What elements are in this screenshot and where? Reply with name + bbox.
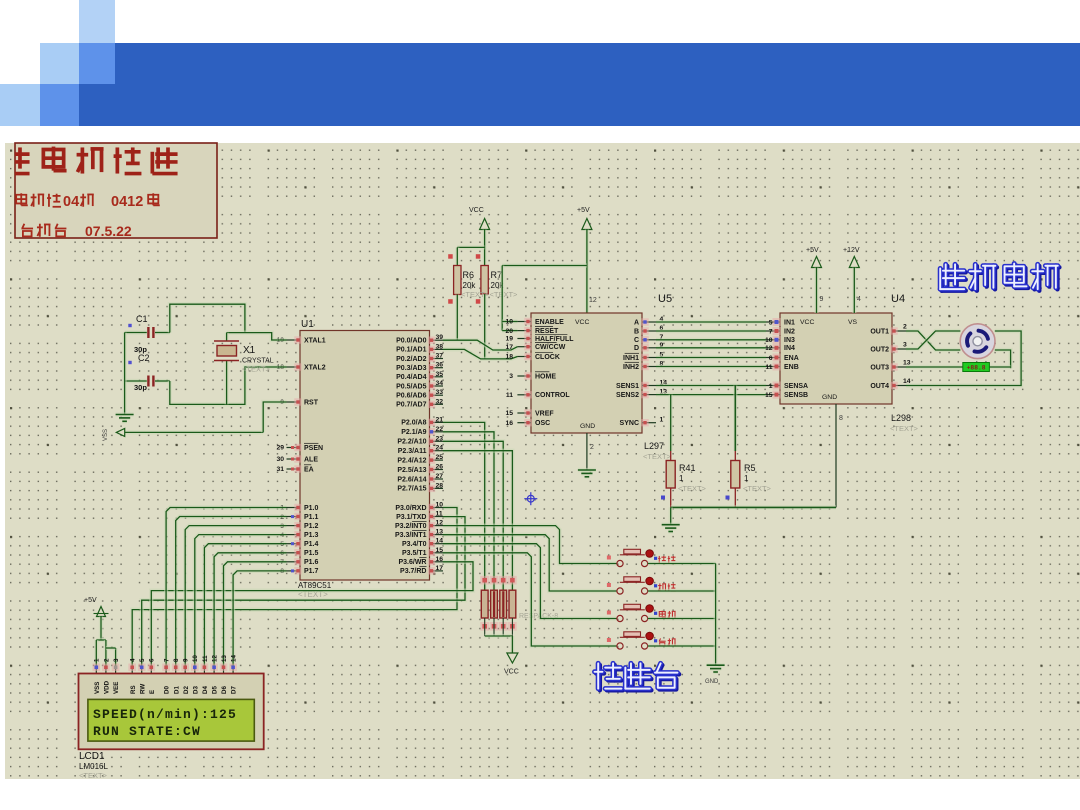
svg-text:HALF/FULL: HALF/FULL [535,336,574,343]
svg-text:10: 10 [436,502,444,509]
svg-text:SENS1: SENS1 [616,383,639,390]
svg-text:OUT1: OUT1 [870,328,889,335]
svg-text:P1.3: P1.3 [304,532,319,539]
svg-text:U1: U1 [301,319,314,330]
svg-text:23: 23 [436,435,444,442]
svg-text:RUN STATE:CW: RUN STATE:CW [93,724,201,739]
svg-text:P2.0/A8: P2.0/A8 [401,420,426,427]
svg-text:SENSA: SENSA [784,383,808,390]
svg-text:VCC: VCC [575,319,589,326]
svg-text:26: 26 [436,464,444,471]
svg-text:19: 19 [505,336,513,343]
svg-text:P1.0: P1.0 [304,505,319,512]
svg-text:IN4: IN4 [784,345,795,352]
svg-text:4: 4 [857,296,861,303]
svg-text:P3.1/TXD: P3.1/TXD [396,514,426,521]
svg-text:SENSB: SENSB [784,392,808,399]
svg-text:+5V: +5V [806,247,819,254]
svg-text:ALE: ALE [304,456,318,463]
svg-text:P1.4: P1.4 [304,541,319,548]
svg-text:0412: 0412 [111,194,143,210]
svg-text:37: 37 [436,353,444,360]
svg-text:D6: D6 [221,686,228,694]
svg-text:1: 1 [769,383,773,390]
svg-text:ENA: ENA [784,355,799,362]
svg-text:16: 16 [505,420,513,427]
svg-text:11: 11 [506,392,513,399]
svg-text:P0.7/AD7: P0.7/AD7 [396,402,426,409]
svg-text:SYNC: SYNC [620,420,639,427]
svg-text:D0: D0 [164,686,171,694]
svg-text:RW: RW [139,684,146,694]
svg-text:P2.6/A14: P2.6/A14 [397,476,426,483]
svg-text:RESET: RESET [535,328,559,335]
svg-text:20: 20 [505,328,513,335]
svg-text:P0.2/AD2: P0.2/AD2 [396,356,426,363]
svg-text:13: 13 [221,655,228,662]
svg-text:P0.6/AD6: P0.6/AD6 [396,393,426,400]
svg-text:P0.0/AD0: P0.0/AD0 [396,338,426,345]
svg-text:VSS: VSS [94,682,101,694]
svg-text:RS: RS [130,685,137,694]
svg-text:35: 35 [436,371,444,378]
svg-text:LM016L: LM016L [79,762,108,771]
svg-text:P2.5/A13: P2.5/A13 [397,467,426,474]
svg-text:D5: D5 [212,686,219,694]
svg-text:<TEXT>: <TEXT> [890,424,919,433]
svg-text:SENS2: SENS2 [616,392,639,399]
svg-text:IN3: IN3 [784,337,795,344]
svg-text:VCC: VCC [800,319,814,326]
svg-text:R41: R41 [679,463,696,473]
svg-text:U5: U5 [658,293,672,305]
svg-text:VEE: VEE [113,682,120,694]
svg-text:+12V: +12V [843,247,860,254]
svg-text:HOME: HOME [535,373,556,380]
svg-text:CW/CCW: CW/CCW [535,344,566,351]
svg-text:IN2: IN2 [784,328,795,335]
svg-text:P1.1: P1.1 [304,514,319,521]
svg-text:P3.5/T1: P3.5/T1 [402,550,427,557]
svg-text:13: 13 [436,529,444,536]
svg-text:P2.1/A9: P2.1/A9 [401,429,426,436]
svg-text:VREF: VREF [535,410,554,417]
svg-text:RST: RST [304,399,319,406]
svg-text:8: 8 [173,658,180,662]
svg-text:10: 10 [192,655,199,662]
svg-text:P2.4/A12: P2.4/A12 [397,457,426,464]
svg-text:P2.7/A15: P2.7/A15 [397,486,426,493]
svg-text:C2: C2 [138,353,150,363]
svg-text:36: 36 [436,362,444,369]
svg-text:VCC: VCC [504,669,519,676]
svg-text:VSS: VSS [103,429,109,441]
svg-text:10: 10 [505,319,513,326]
svg-text:3: 3 [509,373,513,380]
svg-text:VCC: VCC [469,207,484,214]
svg-text:P0.4/AD4: P0.4/AD4 [396,374,426,381]
svg-text:R5: R5 [744,463,756,473]
svg-text:ENB: ENB [784,364,799,371]
svg-text:GND: GND [705,679,719,685]
svg-text:20k: 20k [463,281,477,290]
svg-text:7: 7 [164,658,171,662]
svg-text:INH1: INH1 [623,355,639,362]
svg-text:28: 28 [436,482,444,489]
svg-text:33: 33 [436,389,444,396]
svg-text:+5V: +5V [84,597,97,604]
svg-text:XTAL2: XTAL2 [304,364,326,371]
svg-text:D1: D1 [173,686,180,694]
svg-text:E: E [149,690,156,694]
svg-text:<TEXT>: <TEXT> [678,484,707,493]
svg-text:3: 3 [113,658,120,662]
svg-text:14: 14 [231,655,238,662]
svg-text:P3.6/WR: P3.6/WR [398,559,426,566]
svg-text:GND: GND [580,423,595,430]
svg-text:CRYSTAL: CRYSTAL [242,358,274,365]
svg-text:P1.5: P1.5 [304,550,319,557]
svg-text:15: 15 [436,547,444,554]
svg-text:OUT3: OUT3 [870,364,889,371]
svg-text:ENABLE: ENABLE [535,319,564,326]
svg-text:22: 22 [436,426,444,433]
svg-text:L298: L298 [891,413,911,423]
svg-text:1: 1 [94,658,101,662]
svg-text:34: 34 [436,380,444,387]
svg-text:17: 17 [436,565,444,572]
svg-text:P3.7/RD: P3.7/RD [400,568,426,575]
svg-text:XTAL1: XTAL1 [304,337,326,344]
svg-text:04: 04 [63,194,79,210]
svg-text:31: 31 [276,466,284,473]
svg-text:30: 30 [276,456,284,463]
svg-text:9: 9 [820,296,824,303]
svg-text:D4: D4 [202,686,209,694]
svg-text:12: 12 [765,345,773,352]
svg-text:39: 39 [436,334,444,341]
svg-text:11: 11 [765,364,772,371]
svg-text:CONTROL: CONTROL [535,392,570,399]
svg-text:+5V: +5V [577,207,590,214]
svg-text:1: 1 [679,474,684,483]
svg-text:32: 32 [436,398,444,405]
svg-text:8: 8 [839,415,843,422]
svg-text:1: 1 [744,474,749,483]
svg-text:25: 25 [436,454,444,461]
svg-text:P0.5/AD5: P0.5/AD5 [396,383,426,390]
svg-text:GND: GND [822,394,837,401]
svg-text:27: 27 [436,473,444,480]
svg-text:A: A [634,319,639,326]
svg-text:12: 12 [436,520,444,527]
svg-text:LCD1: LCD1 [79,751,105,762]
svg-text:D2: D2 [183,686,190,694]
svg-text:OSC: OSC [535,420,550,427]
svg-text:29: 29 [276,445,284,452]
svg-text:11: 11 [202,655,209,662]
svg-text:VDD: VDD [104,680,111,694]
svg-text:U4: U4 [891,293,905,305]
svg-text:21: 21 [436,416,444,423]
svg-text:C1: C1 [136,314,148,324]
svg-text:CLOCK: CLOCK [535,354,560,361]
svg-text:D: D [634,345,639,352]
svg-text:R6: R6 [463,270,475,280]
svg-text:07.5.22: 07.5.22 [85,223,132,239]
svg-text:D3: D3 [192,686,199,694]
svg-text:EA: EA [304,466,314,473]
svg-text:B: B [634,328,639,335]
svg-text:P3.3/INT1: P3.3/INT1 [395,532,427,539]
svg-text:P0.1/AD1: P0.1/AD1 [396,347,426,354]
svg-text:L297: L297 [644,441,664,451]
svg-text:7: 7 [769,328,773,335]
svg-text:P3.0/RXD: P3.0/RXD [395,505,426,512]
svg-text:<TEXT>: <TEXT> [643,452,672,461]
svg-text:6: 6 [149,658,156,662]
svg-text:5: 5 [139,658,146,662]
svg-text:15: 15 [505,410,513,417]
svg-text:14: 14 [436,538,444,545]
svg-text:10: 10 [765,337,773,344]
svg-text:X1: X1 [243,345,256,356]
svg-text:4: 4 [130,658,137,662]
svg-text:5: 5 [769,319,773,326]
svg-text:16: 16 [436,556,444,563]
svg-text:2: 2 [103,658,110,662]
svg-text:P3.2/INT0: P3.2/INT0 [395,523,427,530]
svg-text:P2.3/A11: P2.3/A11 [398,448,427,455]
svg-text:P1.7: P1.7 [304,568,319,575]
svg-text:P1.6: P1.6 [304,559,319,566]
svg-text:2: 2 [590,444,594,451]
svg-text:15: 15 [765,392,773,399]
svg-text:12: 12 [589,297,597,304]
svg-text:9: 9 [183,658,190,662]
svg-text:24: 24 [436,445,444,452]
svg-text:<TEXT>: <TEXT> [242,365,271,374]
svg-text:P1.2: P1.2 [304,523,319,530]
svg-text:17: 17 [505,344,513,351]
svg-text:<TEXT>: <TEXT> [743,484,772,493]
svg-text:P0.3/AD3: P0.3/AD3 [396,365,426,372]
svg-text:6: 6 [769,355,773,362]
svg-text:PSEN: PSEN [304,445,323,452]
svg-text:+88.8: +88.8 [967,365,986,372]
svg-text:P2.2/A10: P2.2/A10 [397,439,426,446]
svg-text:C: C [634,337,639,344]
svg-text:38: 38 [436,343,444,350]
svg-text:<TEXT>: <TEXT> [79,771,108,780]
svg-text:D7: D7 [231,686,238,694]
svg-text:30p: 30p [134,383,147,392]
svg-text:VS: VS [848,319,858,326]
svg-text:18: 18 [505,354,513,361]
svg-text:SPEED(n/min):125: SPEED(n/min):125 [93,707,237,722]
svg-text:1: 1 [660,417,664,424]
svg-text:11: 11 [436,511,443,518]
svg-text:OUT2: OUT2 [870,346,889,353]
svg-text:IN1: IN1 [784,319,795,326]
svg-text:OUT4: OUT4 [870,383,889,390]
svg-text:INH2: INH2 [623,364,639,371]
svg-text:P3.4/T0: P3.4/T0 [402,541,427,548]
svg-text:12: 12 [212,655,219,662]
